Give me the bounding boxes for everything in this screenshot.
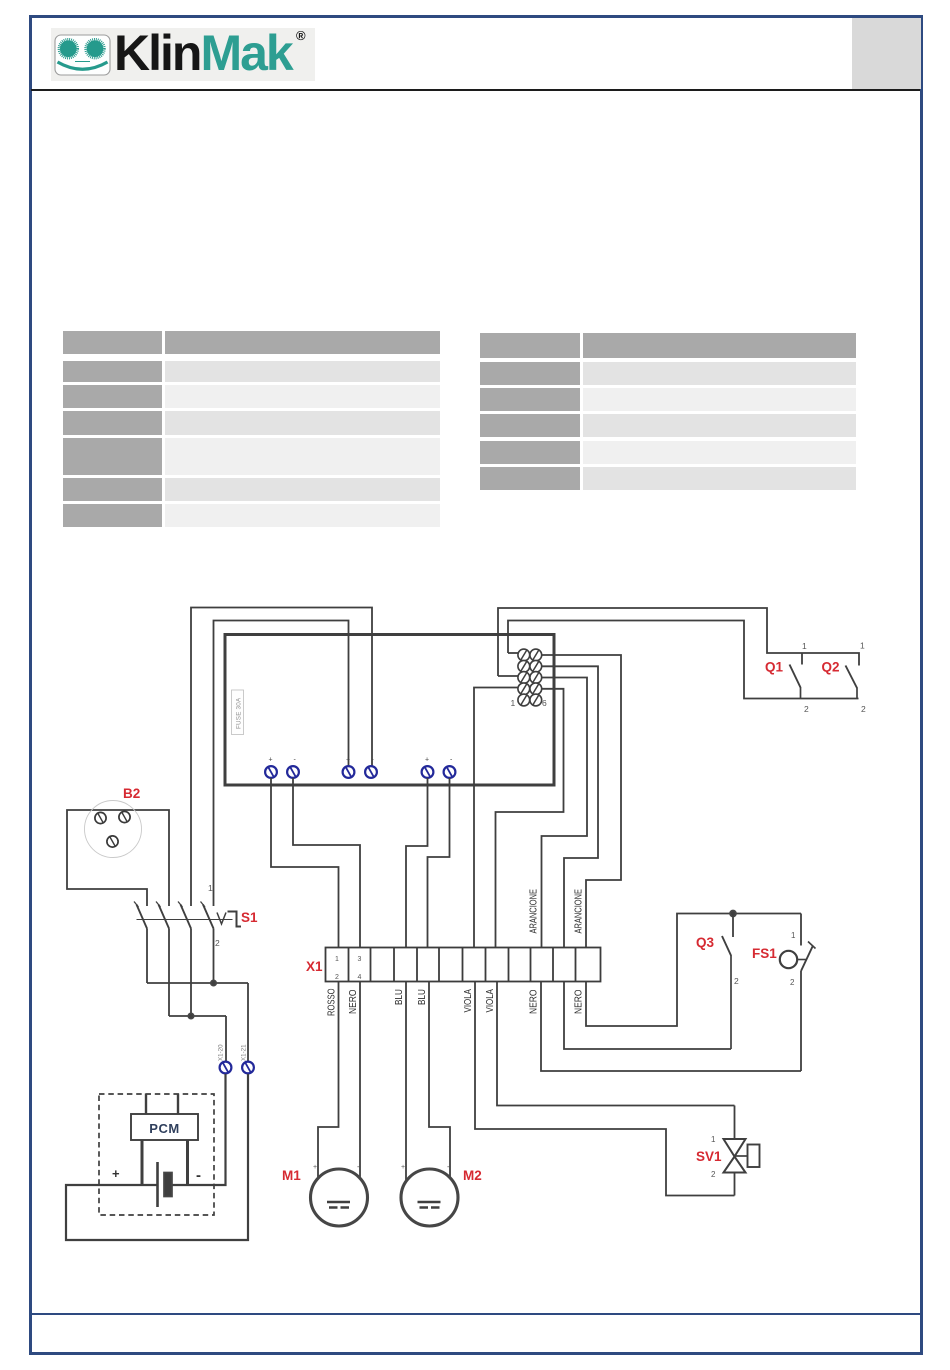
wire rail L2 (charger terminal 3 to S1 pole 4)	[214, 621, 349, 907]
svg-text:Q1: Q1	[765, 660, 784, 675]
svg-text:NERO: NERO	[348, 989, 359, 1014]
svg-text:6: 6	[542, 698, 547, 708]
svg-text:-: -	[372, 757, 375, 764]
wire bus positive	[147, 982, 248, 984]
motor M2	[401, 1169, 458, 1226]
svg-text:Q3: Q3	[696, 935, 715, 950]
switch Q3	[722, 936, 731, 1049]
charger terminal 1	[265, 766, 277, 778]
svg-text:2: 2	[711, 1170, 716, 1179]
wire Q3 pin1 stub	[732, 914, 734, 938]
svg-text:X1: X1	[306, 959, 323, 974]
svg-text:1: 1	[791, 931, 796, 940]
wire charger t2 to X1-2	[293, 778, 360, 948]
header gray box right	[852, 18, 921, 89]
wire PCM top leg 2	[177, 1094, 179, 1115]
svg-text:X1-20: X1-20	[218, 1044, 225, 1061]
wire coil row1-right to X1-12	[541, 655, 621, 948]
svg-text:1: 1	[711, 1135, 716, 1144]
wire coil row3-right to X1-10	[541, 678, 587, 949]
svg-text:3: 3	[358, 956, 362, 963]
junction S1-3/bus	[188, 1013, 193, 1018]
svg-text:-: -	[450, 757, 453, 764]
right data table	[480, 333, 580, 359]
wire bus negative	[169, 1015, 226, 1017]
left data table	[63, 331, 163, 354]
svg-text:SV1: SV1	[696, 1149, 722, 1164]
svg-text:-: -	[357, 1162, 360, 1171]
wire charger t1 to X1-1	[271, 778, 339, 948]
svg-text:M2: M2	[463, 1168, 482, 1183]
svg-text:-: -	[196, 1167, 201, 1184]
wire X1-4 to M2 plus (BLU)	[405, 982, 407, 1181]
junction Q3 rail	[730, 911, 736, 917]
smile	[75, 61, 90, 63]
wire FS1 pin2 lead	[800, 971, 802, 1071]
switch Q2	[846, 666, 858, 699]
terminal X1-20	[220, 1062, 232, 1074]
svg-text:1: 1	[208, 883, 213, 893]
svg-text:1: 1	[335, 956, 339, 963]
wire rail L1 (charger terminal 4 to S1 pole 3)	[191, 608, 372, 907]
svg-text:+: +	[112, 1166, 120, 1181]
float switch FS1	[780, 942, 816, 972]
wire Q1 pin1 stub	[801, 653, 803, 665]
svg-text:ARANCIONE: ARANCIONE	[529, 889, 540, 934]
terminal block X1	[326, 948, 601, 982]
wire coil row4-left to X1-7	[474, 688, 519, 949]
svg-text:+: +	[401, 1164, 405, 1171]
wire charger t5 to X1-4	[406, 778, 428, 948]
wire coil row3 left stub	[498, 675, 519, 677]
wire X1-7 to SV1 return (VIOLA)	[475, 982, 735, 1196]
svg-text:2: 2	[861, 704, 866, 714]
svg-text:NERO: NERO	[529, 989, 540, 1014]
svg-text:+: +	[269, 757, 273, 764]
wire SV1 pin2 lead	[734, 1173, 736, 1196]
svg-text:-: -	[294, 757, 297, 764]
charger terminal 4	[365, 766, 377, 778]
svg-text:2: 2	[790, 978, 795, 987]
main switch S1	[134, 902, 241, 929]
svg-text:X1-21: X1-21	[241, 1044, 248, 1061]
wire S1 pole3 down	[190, 929, 192, 1017]
svg-text:1: 1	[860, 641, 865, 651]
svg-text:+: +	[346, 757, 350, 764]
wire S1 pole1 down	[146, 929, 148, 984]
battery long plate	[156, 1162, 159, 1207]
wire rail R1 (coil row1-left to Q1/Q2 top)	[508, 621, 859, 699]
svg-text:M1: M1	[282, 1168, 301, 1183]
wire X1-20 to battery -	[172, 1074, 226, 1185]
svg-text:2: 2	[335, 974, 339, 981]
svg-text:BLU: BLU	[394, 989, 405, 1005]
svg-text:BLU: BLU	[417, 989, 428, 1005]
switch Q1	[790, 665, 801, 699]
wire PCM bottom leg 2	[186, 1140, 189, 1186]
svg-text:1: 1	[511, 698, 516, 708]
PCM box	[131, 1114, 198, 1140]
svg-text:+: +	[313, 1164, 317, 1171]
footer divider	[31, 1313, 920, 1315]
svg-text:2: 2	[804, 704, 809, 714]
wire rail R2 (coil row3-left to Q2 pin1)	[498, 608, 859, 676]
wire SV1 pin1 lead	[734, 1106, 736, 1140]
svg-text:ROSSO: ROSSO	[327, 988, 338, 1016]
wire bus to X1-21	[247, 983, 249, 1061]
wire B2 loop	[67, 810, 169, 906]
battery short plate	[164, 1173, 172, 1197]
wire coil row1 left stub	[508, 652, 519, 654]
wire S1 pole2 down	[168, 929, 170, 1017]
wire X1-12 to Q3/FS1 rail (up)	[586, 914, 801, 1027]
charger terminal 3	[343, 766, 355, 778]
svg-text:FUSE 30A: FUSE 30A	[236, 697, 243, 729]
motor M1	[311, 1169, 368, 1226]
svg-text:Q2: Q2	[822, 660, 840, 675]
fuse label box	[232, 690, 244, 735]
wire X1-1 to M1 plus (ROSSO)	[318, 982, 339, 1181]
svg-text:4: 4	[358, 974, 362, 981]
solenoid valve SV1	[724, 1139, 760, 1173]
svg-text:VIOLA: VIOLA	[485, 989, 496, 1013]
socket B2	[85, 801, 142, 858]
junction S1-4/bus	[211, 980, 216, 985]
charger box	[225, 635, 554, 786]
svg-text:FS1: FS1	[752, 946, 777, 961]
wire X1-10 to FS1 pin2 (NERO)	[541, 982, 801, 1072]
svg-text:S1: S1	[241, 910, 258, 925]
svg-text:1: 1	[802, 641, 807, 651]
wire S1 pole4 down	[213, 929, 215, 984]
terminal X1-21	[242, 1062, 254, 1074]
svg-text:+: +	[425, 757, 429, 764]
wire FS1 pin1 lead	[800, 914, 802, 946]
wire charger t6 to X1-5	[428, 778, 450, 948]
svg-text:2: 2	[215, 938, 220, 948]
wire X1-8 to SV1 pin1 (VIOLA)	[497, 982, 735, 1106]
svg-text:2: 2	[734, 976, 739, 986]
svg-text:ARANCIONE: ARANCIONE	[574, 889, 585, 934]
wire PCM top leg 1	[145, 1094, 147, 1115]
svg-text:-: -	[447, 1162, 450, 1171]
charger terminal 2	[287, 766, 299, 778]
wire X1-2 to M1 minus (NERO)	[359, 982, 361, 1181]
svg-text:PCM: PCM	[149, 1121, 179, 1136]
wire X1-5 to M2 minus (BLU)	[429, 982, 450, 1181]
charger terminal 6	[444, 766, 456, 778]
svg-text:VIOLA: VIOLA	[463, 989, 474, 1013]
wire bus to X1-20	[225, 1016, 228, 1061]
header divider	[31, 89, 920, 91]
connector coil CN1	[518, 649, 542, 706]
wire X1-21 to battery +	[66, 1074, 248, 1240]
gear left	[59, 39, 78, 58]
gear right	[86, 39, 105, 58]
logo block	[51, 28, 315, 81]
wire coil row2-right to X1-11	[541, 666, 598, 948]
wire coil row4-right to X1-8	[496, 689, 564, 948]
svg-text:NERO: NERO	[574, 989, 585, 1014]
wire X1-11 to Q3 pin2 (NERO)	[564, 982, 731, 1050]
svg-text:B2: B2	[123, 786, 140, 801]
wire PCM bottom leg 1	[141, 1140, 144, 1186]
PCM dashed enclosure	[99, 1094, 214, 1215]
charger terminal 5	[422, 766, 434, 778]
